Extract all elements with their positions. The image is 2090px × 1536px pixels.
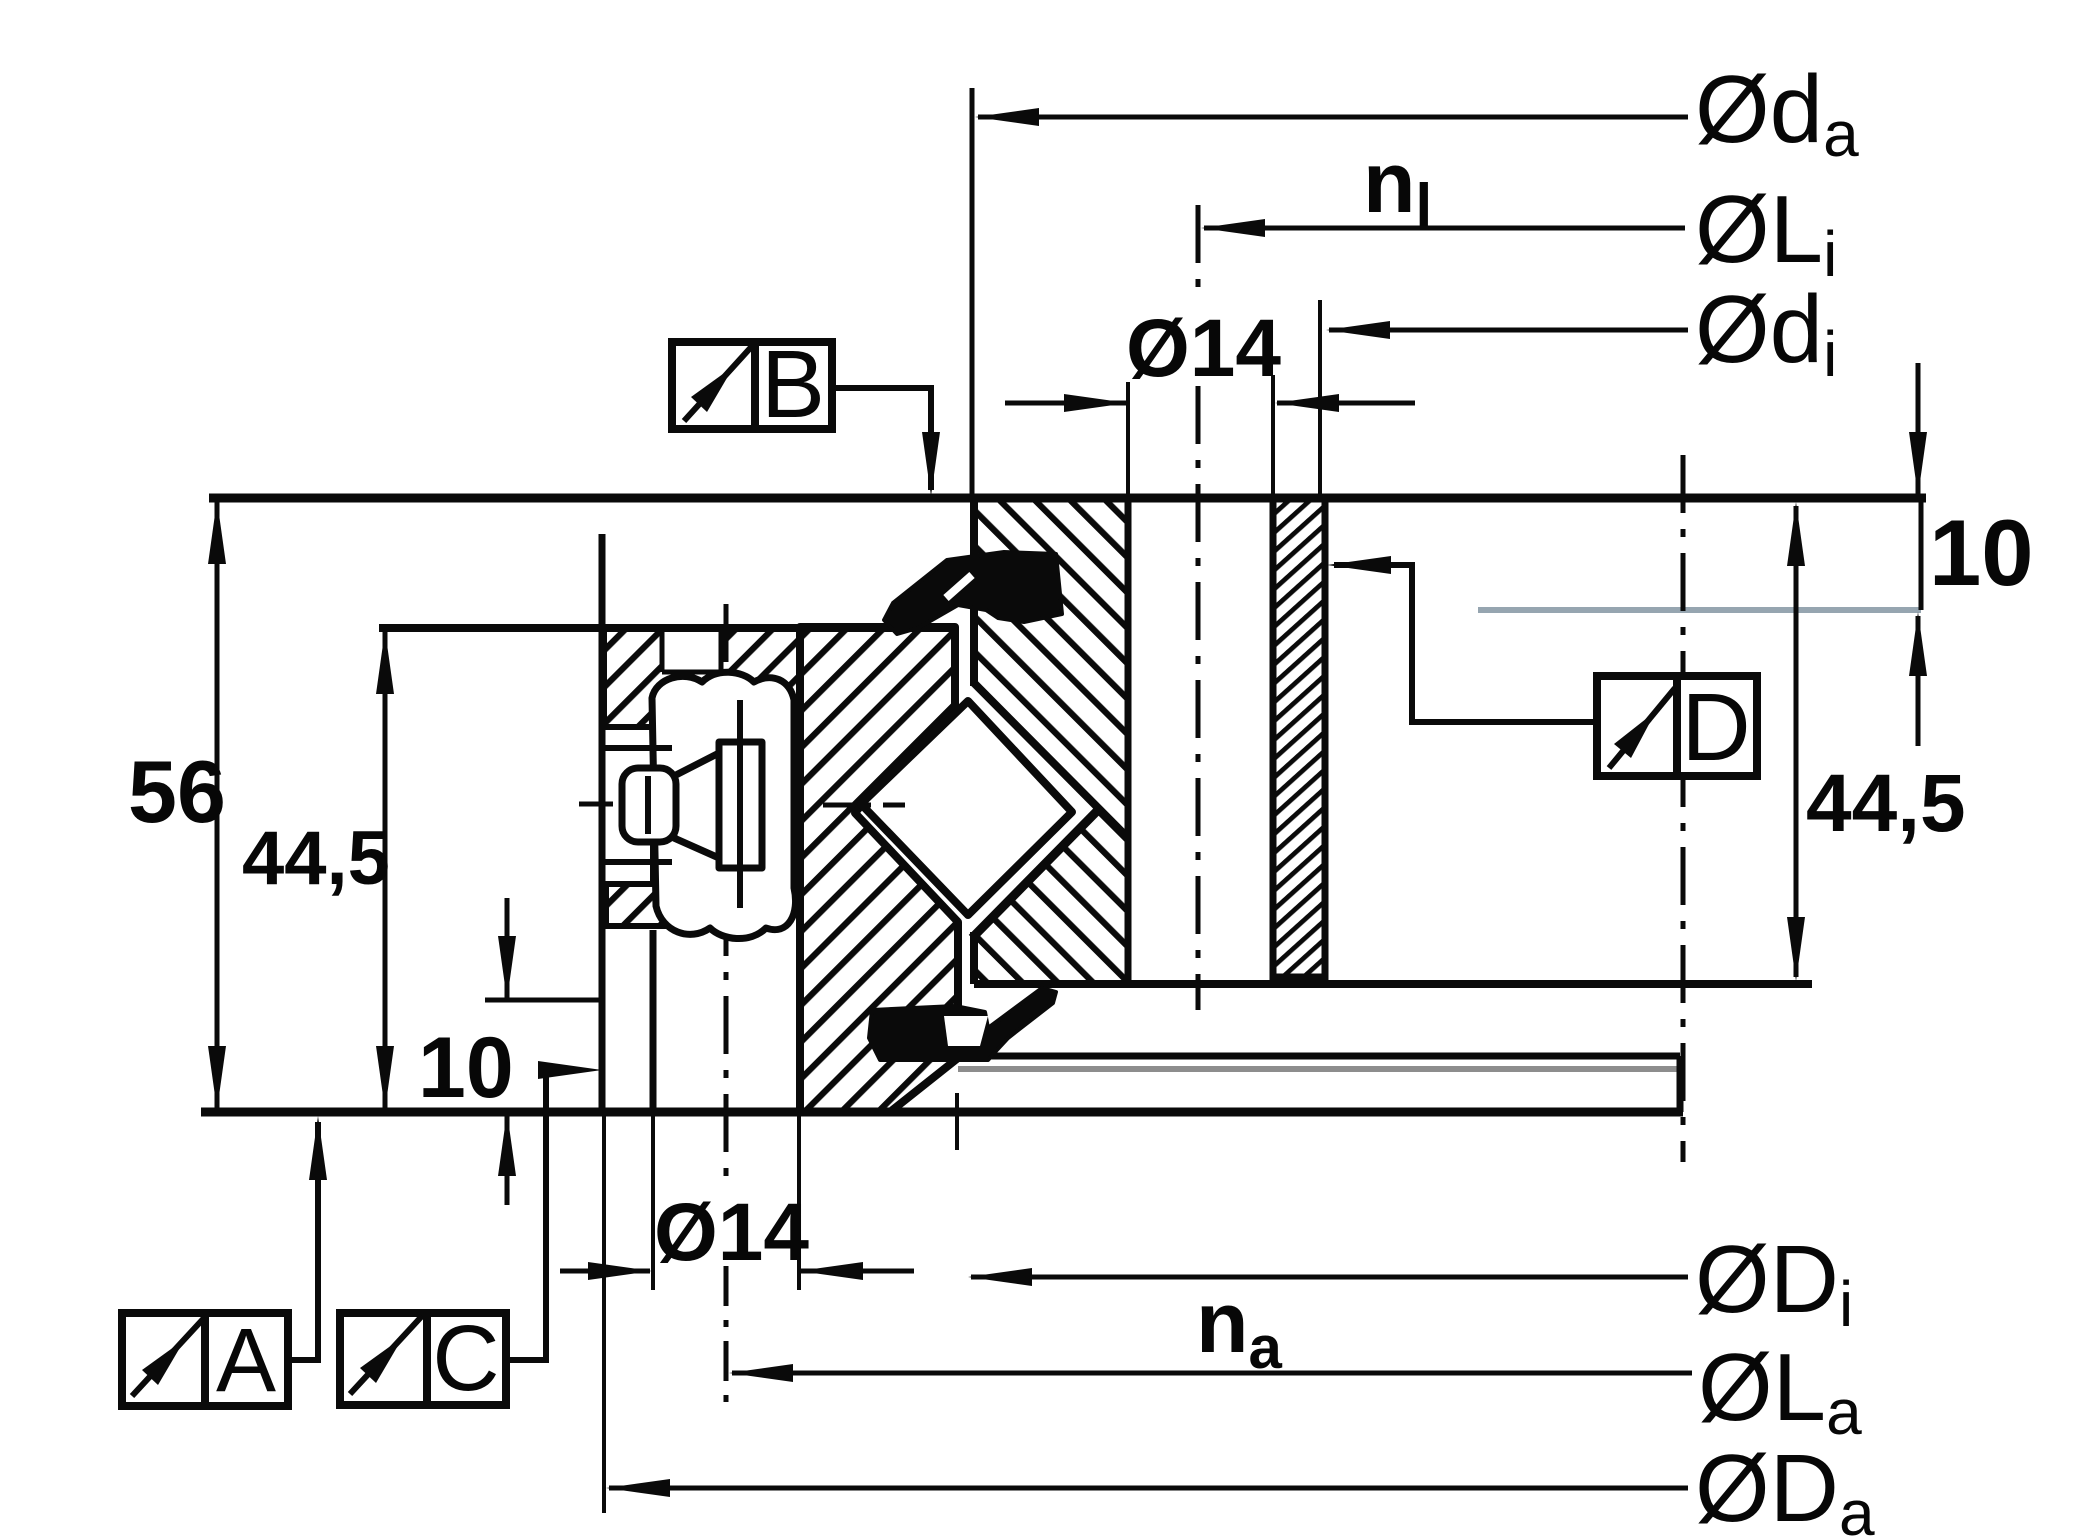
svg-text:A: A bbox=[216, 1311, 276, 1411]
outer ring hatched section bbox=[800, 627, 958, 1112]
top hole left extension line bbox=[1126, 382, 1130, 498]
svg-text:10: 10 bbox=[1929, 500, 2034, 605]
inner ring bore extension line bbox=[1318, 300, 1322, 498]
dimension 44,5 right line bbox=[1794, 506, 1799, 977]
datum B leader bbox=[832, 388, 931, 490]
outer ring bolt axis centerline bbox=[724, 604, 729, 1192]
inner ring hatched section bbox=[974, 498, 1128, 984]
inner ring bolt axis centerline bbox=[1196, 205, 1201, 300]
bore inner-diameter extension below ring bbox=[955, 1093, 959, 1150]
grease nipple axis dash bbox=[579, 802, 786, 807]
datum box D bbox=[1597, 674, 1757, 781]
dimension line to ODi bbox=[971, 1275, 1688, 1280]
bottom mounting surface line bbox=[201, 1108, 1683, 1117]
outer ring top surface line bbox=[379, 624, 955, 632]
dimension 10 left arrows bbox=[505, 898, 510, 998]
crossed roller (diamond) bbox=[861, 701, 1072, 915]
lower seal bbox=[869, 988, 1056, 1060]
svg-text:D: D bbox=[1681, 674, 1750, 781]
svg-text:10: 10 bbox=[418, 1020, 514, 1116]
dimension line to Oda bbox=[978, 115, 1688, 120]
inner ring bottom surface line bbox=[974, 980, 1812, 988]
outer ring clamp band below grease nipple bbox=[606, 884, 751, 926]
svg-text:Ødi: Ødi bbox=[1695, 276, 1837, 390]
svg-text:B: B bbox=[761, 331, 825, 438]
svg-text:44,5: 44,5 bbox=[242, 816, 390, 901]
datum D leader bbox=[1334, 565, 1597, 722]
grease nipple cavity outline bbox=[652, 672, 796, 938]
inner ring lower raceway line bbox=[972, 808, 1100, 938]
outer ring clamp band above grease nipple bbox=[604, 627, 799, 727]
inner ring left face lower segment bbox=[970, 932, 978, 984]
inner ring bore-side hatched strip bbox=[1273, 498, 1325, 977]
roller axis dash bbox=[823, 803, 905, 808]
datum A leader bbox=[288, 1122, 318, 1360]
inner ring right wall stroke bbox=[1125, 498, 1132, 984]
dimension 44,5 left line bbox=[383, 632, 388, 1108]
bottom hole left extension line bbox=[651, 1112, 655, 1290]
inner ring left face upper segment bbox=[970, 498, 978, 686]
svg-text:Ø14: Ø14 bbox=[1126, 303, 1281, 394]
right step tick line bbox=[1919, 498, 1924, 610]
outer ring bolt-hole left wall bbox=[650, 930, 657, 1112]
bottom hole right extension line bbox=[797, 1112, 801, 1290]
grease nipple cone bbox=[674, 753, 719, 858]
support band top line bbox=[982, 1053, 1680, 1060]
dimension O14 top arrows bbox=[1005, 401, 1126, 406]
datum box C bbox=[340, 1306, 506, 1410]
bolt hole wall behind nipple upper bbox=[650, 729, 656, 766]
svg-text:44,5: 44,5 bbox=[1806, 758, 1966, 849]
inner ring bolt-hole left wall bbox=[1125, 498, 1132, 984]
svg-text:ØDi: ØDi bbox=[1695, 1226, 1853, 1340]
datum C leader bbox=[506, 1070, 560, 1360]
svg-text:C: C bbox=[432, 1306, 499, 1410]
svg-text:Ø14: Ø14 bbox=[654, 1187, 809, 1278]
dimension O14 bottom arrows bbox=[560, 1269, 650, 1274]
upper seal bbox=[884, 552, 1062, 634]
dimension line to OLi bbox=[1204, 226, 1685, 231]
bolt hole wall behind nipple lower bbox=[650, 844, 656, 882]
top mounting surface line bbox=[209, 494, 1926, 503]
dimension 10 right arrows bbox=[1916, 363, 1921, 494]
support band right end cap bbox=[1677, 1056, 1684, 1112]
dimension line to ODa bbox=[609, 1486, 1688, 1491]
svg-text:56: 56 bbox=[128, 742, 226, 841]
inner ring raceway line bbox=[974, 683, 1128, 838]
roller clearance gap wedge bbox=[971, 681, 1100, 940]
grease nipple hex shank bbox=[719, 742, 762, 868]
outer ring OD extension line bbox=[602, 1112, 606, 1513]
right reference centerline bbox=[1681, 455, 1686, 1162]
inner ring OD extension line above bbox=[970, 88, 975, 498]
support band grey joint line bbox=[958, 1066, 1680, 1072]
outer ring outside face bbox=[599, 534, 606, 1112]
grease nipple tip bbox=[622, 768, 676, 842]
seating ghost line right bbox=[1478, 607, 1921, 613]
svg-text:ØLi: ØLi bbox=[1695, 176, 1837, 290]
dimension line to OLa bbox=[732, 1371, 1692, 1376]
datum box B bbox=[672, 331, 832, 438]
top hole right extension line bbox=[1271, 375, 1275, 498]
ten dim extension tick at left bbox=[485, 998, 604, 1003]
nipple cavity wall lines bbox=[604, 745, 672, 751]
dimension line to Odi bbox=[1329, 328, 1688, 333]
datum box A bbox=[122, 1311, 288, 1411]
dimension 56 line bbox=[215, 502, 220, 1108]
